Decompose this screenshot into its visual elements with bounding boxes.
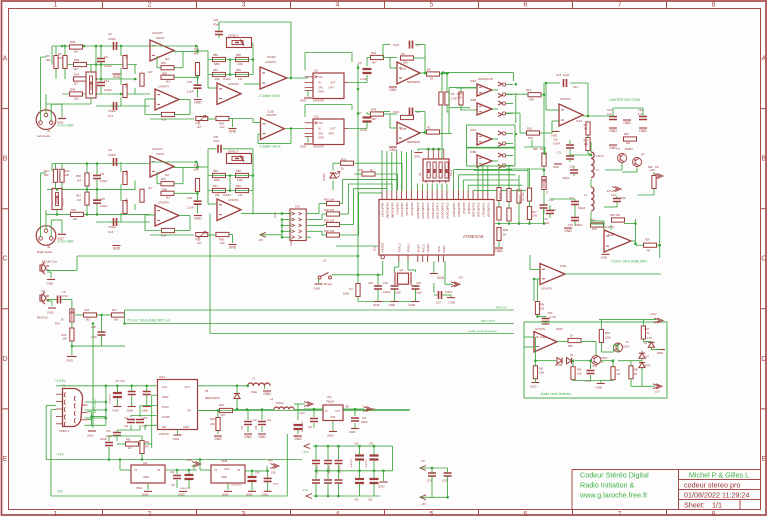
svg-text:S1: S1 [418,172,422,176]
svg-text:4k7: 4k7 [145,446,150,449]
svg-text:IC10C: IC10C [223,77,231,81]
svg-text:10K: 10K [58,56,63,60]
svg-text:(T0)PD4: (T0)PD4 [467,202,471,214]
svg-text:R19: R19 [526,88,532,92]
svg-text:GND: GND [409,303,417,307]
svg-text:1uF: 1uF [171,484,176,487]
svg-text:GND: GND [127,409,133,413]
svg-text:OUT: OUT [335,410,341,413]
svg-text:10: 10 [430,77,434,81]
svg-text:(INT0)PD2: (INT0)PD2 [477,202,481,217]
svg-text:GND: GND [57,236,63,240]
svg-text:6: 6 [524,511,528,517]
svg-text:R59: R59 [213,169,218,173]
svg-text:R31: R31 [85,308,90,312]
svg-text:GND: GND [327,434,333,438]
svg-text:D: D [761,356,766,363]
svg-text:-12V: -12V [299,411,305,415]
svg-text:100pF: 100pF [100,179,108,183]
svg-text:GND: GND [330,416,336,419]
svg-text:330uF/25V: 330uF/25V [180,488,191,490]
svg-text:12k: 12k [238,193,243,197]
svg-text:10uF/25V: 10uF/25V [366,459,368,468]
svg-text:IC8B: IC8B [470,98,476,102]
svg-text:R35: R35 [196,122,201,126]
svg-text:J1: J1 [47,129,51,133]
svg-text:GND: GND [657,351,663,355]
svg-text:-2.3dBm 1KHz: -2.3dBm 1KHz [258,94,280,98]
svg-text:GND: GND [349,430,355,434]
svg-text:+12V: +12V [650,312,657,316]
svg-text:C49: C49 [170,471,175,474]
svg-text:MAX297: MAX297 [314,145,325,149]
svg-text:(ADC2)PC2: (ADC2)PC2 [431,202,435,219]
svg-text:MBRA160T3: MBRA160T3 [205,396,220,400]
svg-text:3300CK: 3300CK [97,84,99,92]
svg-text:100uH: 100uH [276,401,284,405]
svg-text:X3 19K Out: X3 19K Out [42,260,58,264]
svg-text:130k: 130k [539,372,545,375]
svg-text:C9: C9 [62,290,66,294]
svg-text:V0: V0 [237,468,241,472]
svg-text:L5970D: L5970D [159,432,169,436]
svg-text:1uF: 1uF [607,112,612,116]
svg-text:OP1: OP1 [318,132,324,136]
svg-text:GND: GND [229,246,237,250]
svg-text:IC10A: IC10A [156,152,164,156]
svg-text:1k0: 1k0 [220,125,225,129]
svg-text:OUT: OUT [185,385,191,389]
svg-text:2: 2 [148,511,152,517]
svg-text:XTAL2: XTAL2 [397,243,401,253]
svg-text:680: 680 [46,58,51,62]
svg-text:IC11: IC11 [159,375,165,379]
svg-text:26K, R35: 26K, R35 [523,191,525,201]
svg-text:47nF: 47nF [142,417,148,420]
svg-text:R7: R7 [350,287,354,291]
svg-text:680k: 680k [214,178,220,182]
svg-text:SUB-D 9: SUB-D 9 [59,429,70,433]
svg-text:2: 2 [148,2,152,9]
svg-text:GND: GND [112,409,118,413]
svg-text:LF347N: LF347N [228,82,238,86]
svg-text:10uF/25V: 10uF/25V [317,465,319,474]
svg-text:XTAL1: XTAL1 [407,243,411,253]
svg-text:www.g.laroche.free.fr: www.g.laroche.free.fr [579,491,648,500]
svg-text:C28: C28 [91,325,96,329]
svg-text:BC847: BC847 [600,357,608,360]
svg-text:R37: R37 [532,212,537,214]
svg-text:7: 7 [618,2,622,9]
svg-text:GND: GND [194,217,202,221]
svg-text:R56: R56 [236,68,241,72]
svg-text:4k7: 4k7 [372,117,377,121]
svg-text:(ADC5)PC5: (ADC5)PC5 [416,202,420,219]
svg-text:GND: GND [87,434,93,438]
svg-text:RESET: RESET [381,242,385,252]
svg-text:R41 100: R41 100 [324,197,335,201]
svg-text:R4: R4 [401,52,405,56]
svg-text:GND: GND [556,327,562,331]
svg-text:GND: GND [609,129,617,133]
svg-text:1k0: 1k0 [220,241,225,245]
svg-text:R5: R5 [427,68,431,72]
svg-text:4k7: 4k7 [197,241,202,245]
svg-text:2k7: 2k7 [77,198,82,202]
svg-text:12k: 12k [238,77,243,81]
svg-text:IC4B: IC4B [608,233,614,237]
svg-text:R13: R13 [65,169,70,173]
svg-text:3.9mH: 3.9mH [596,154,604,158]
svg-text:470pF: 470pF [108,225,116,229]
svg-text:+5V: +5V [458,276,463,280]
svg-text:C3: C3 [108,32,112,36]
svg-text:GND: GND [530,385,536,389]
svg-text:IC8D: IC8D [470,150,476,154]
svg-text:C1: C1 [416,43,420,47]
svg-text:GND: GND [221,475,227,479]
svg-text:C36: C36 [368,281,373,285]
svg-text:C33: C33 [607,108,612,112]
svg-text:IC12: IC12 [224,467,230,471]
svg-text:S975LS: S975LS [228,150,238,154]
svg-text:C21: C21 [557,151,562,155]
svg-text:-8V: -8V [345,405,349,409]
svg-text:R1: R1 [451,92,455,96]
svg-text:5.6K: 5.6K [532,216,537,218]
svg-text:01/08/2022 11:29:24: 01/08/2022 11:29:24 [684,490,749,499]
svg-text:MAX297: MAX297 [314,99,325,103]
svg-text:24K: 24K [210,422,215,426]
svg-text:R51: R51 [161,61,166,65]
svg-text:Audio Level Detector: Audio Level Detector [541,392,573,396]
svg-text:2k0: 2k0 [74,97,79,101]
svg-text:4.7nF: 4.7nF [550,315,557,319]
svg-text:10K R17: 10K R17 [500,190,502,200]
svg-text:R47: R47 [74,73,80,77]
svg-text:LF347N: LF347N [228,198,238,202]
svg-text:15K: 15K [528,136,533,140]
svg-text:Q2: Q2 [641,152,645,156]
svg-text:GND: GND [57,121,63,125]
svg-text:LIMITER SECTION: LIMITER SECTION [609,98,641,102]
svg-text:(SS)PB2: (SS)PB2 [395,202,399,214]
svg-text:(AIN0)PB6: (AIN0)PB6 [457,202,461,217]
svg-text:GND: GND [564,229,572,233]
svg-text:Radio Initiation &: Radio Initiation & [580,481,635,490]
svg-text:R67: R67 [645,327,650,331]
svg-text:1/1: 1/1 [712,500,722,509]
svg-text:GND: GND [378,485,384,489]
svg-text:GND: GND [623,121,631,125]
svg-text:LF347N: LF347N [152,31,163,35]
svg-text:GND: GND [553,165,559,169]
svg-text:100nF: 100nF [383,290,391,294]
svg-text:15pF: 15pF [620,196,626,200]
svg-text:R51: R51 [161,177,166,181]
svg-text:GND: GND [601,256,607,260]
svg-text:R59: R59 [213,53,218,57]
svg-text:540: 540 [403,61,408,65]
svg-text:C43: C43 [106,430,111,433]
svg-text:R58: R58 [236,53,241,57]
svg-text:3: 3 [242,511,246,517]
svg-text:1K: 1K [370,168,374,172]
svg-text:R35 10K: R35 10K [610,213,620,217]
svg-text:100nF: 100nF [445,290,453,294]
svg-text:GND: GND [183,425,189,429]
svg-text:C16: C16 [187,196,192,200]
svg-text:OP0: OP0 [329,132,335,136]
svg-text:3K3: 3K3 [584,129,589,131]
svg-text:X2: X2 [41,289,45,293]
svg-text:-12V: -12V [654,390,660,394]
svg-text:220pF: 220pF [100,438,107,441]
svg-text:220k: 220k [605,336,611,340]
svg-text:V0: V0 [157,468,161,472]
svg-text:GND: GND [47,311,55,315]
svg-text:1K8: 1K8 [592,227,597,231]
svg-text:A: A [3,56,8,63]
svg-text:4k7: 4k7 [166,80,171,84]
svg-text:R54: R54 [161,118,167,122]
svg-text:GND: GND [389,148,397,152]
svg-text:IC8C: IC8C [470,128,476,132]
svg-text:C19: C19 [549,199,554,202]
svg-text:C41: C41 [124,417,129,420]
svg-text:COMP: COMP [162,415,170,419]
svg-text:GND: GND [300,99,306,103]
svg-text:24K: 24K [529,98,534,102]
svg-text:4k7: 4k7 [148,70,153,74]
svg-text:220nF: 220nF [361,421,368,424]
svg-text:IC4A: IC4A [576,119,582,123]
svg-text:+13.6V: +13.6V [55,379,66,383]
svg-text:C28: C28 [213,18,219,22]
svg-text:R34: R34 [503,228,509,232]
svg-text:R57: R57 [213,184,218,188]
svg-text:(ICP)PB0: (ICP)PB0 [410,202,414,215]
svg-text:100nF: 100nF [273,484,280,486]
svg-text:10E: 10E [584,144,589,146]
svg-text:1: 1 [54,511,58,517]
svg-text:R12: R12 [44,169,49,173]
svg-text:HE10: HE10 [289,238,293,245]
svg-text:V1: V1 [214,468,218,472]
svg-text:GND: GND [229,130,237,134]
svg-text:GND: GND [262,492,268,496]
svg-text:1K: 1K [546,191,549,194]
svg-text:codeur stereo pro: codeur stereo pro [684,480,740,489]
svg-text:8: 8 [712,2,716,9]
svg-text:SYNC: SYNC [162,405,169,409]
svg-text:R21: R21 [584,125,589,127]
svg-text:+5V: +5V [421,502,426,506]
svg-text:IN: IN [325,410,328,413]
svg-text:LF347N: LF347N [158,85,169,89]
svg-text:(INT1)PD3: (INT1)PD3 [472,202,476,217]
svg-text:C23: C23 [568,223,573,227]
svg-text:R64: R64 [540,303,545,307]
svg-text:+8V: +8V [268,459,273,463]
svg-text:C46: C46 [255,425,258,430]
svg-text:(ADC0)PC0: (ADC0)PC0 [441,202,445,219]
svg-text:(SCK)PB5: (SCK)PB5 [381,202,385,217]
svg-text:IN: IN [318,81,321,85]
svg-text:(T1)PD5: (T1)PD5 [462,202,466,214]
svg-text:9k5: 9k5 [114,318,119,322]
svg-text:R39 100: R39 100 [324,218,335,222]
svg-text:13pF: 13pF [91,335,97,339]
svg-text:GND: GND [314,287,322,291]
svg-text:AVCC: AVCC [421,243,425,252]
svg-text:470pF: 470pF [108,37,116,41]
svg-text:33uH: 33uH [251,390,257,394]
svg-text:10K: 10K [65,173,70,177]
svg-text:LF347N: LF347N [604,225,614,229]
svg-text:R61: R61 [539,368,544,371]
svg-text:1: 1 [54,2,58,9]
svg-text:R58: R58 [236,169,241,173]
svg-text:(ICP)PB0: (ICP)PB0 [405,202,409,215]
svg-text:BAS70: BAS70 [643,365,651,368]
svg-text:BC807: BC807 [625,147,633,151]
svg-text:NE5532N: NE5532N [407,140,420,144]
svg-text:1uF: 1uF [638,112,643,116]
svg-text:710mV 1KHz (0dB) MPX: 710mV 1KHz (0dB) MPX [611,260,648,264]
svg-text:S2: S2 [323,259,327,263]
svg-text:+12V: +12V [56,453,65,457]
svg-text:AREF: AREF [416,244,420,252]
svg-text:C5: C5 [358,61,362,65]
svg-text:DS-4: DS-4 [449,170,453,176]
svg-text:2.2uF: 2.2uF [543,221,550,225]
svg-text:C47: C47 [362,417,367,420]
svg-text:CLK: CLK [318,121,323,125]
svg-text:GND: GND [318,90,324,94]
svg-text:2k7: 2k7 [74,82,79,86]
svg-text:100uF/16V: 100uF/16V [231,485,242,487]
svg-text:INH: INH [162,425,167,429]
svg-text:R33: R33 [341,158,347,162]
svg-text:4: 4 [336,2,340,9]
svg-text:C44: C44 [241,425,244,430]
svg-text:OUT: OUT [330,81,336,85]
svg-text:3k3: 3k3 [86,318,91,322]
svg-text:100pF: 100pF [104,64,112,68]
svg-text:R45: R45 [70,40,76,44]
svg-text:IC4: IC4 [327,395,332,399]
svg-text:R62: R62 [126,439,131,442]
svg-text:C53: C53 [548,311,553,315]
svg-text:R43: R43 [371,108,377,112]
svg-text:R29: R29 [62,333,67,337]
svg-text:SK1: SK1 [573,85,578,89]
svg-text:10uF/25V: 10uF/25V [351,459,353,468]
svg-text:R49: R49 [125,54,129,59]
svg-text:B: B [3,156,8,163]
svg-text:GND: GND [258,435,266,439]
svg-text:LF347N: LF347N [158,201,169,205]
svg-text:1M2: 1M2 [577,373,582,376]
svg-text:79L08: 79L08 [326,400,334,404]
svg-text:R2: R2 [427,126,431,130]
svg-text:330pF: 330pF [575,223,583,227]
svg-text:R23: R23 [584,141,589,143]
svg-text:R92: R92 [145,441,150,444]
svg-text:C15: C15 [556,73,562,77]
svg-text:R9: R9 [58,52,62,56]
svg-text:GND: GND [113,75,121,79]
svg-text:IC8A: IC8A [470,79,476,83]
svg-text:S975LS: S975LS [228,34,238,38]
svg-text:VREF: VREF [162,395,169,399]
svg-text:R6: R6 [46,54,50,58]
svg-text:R65: R65 [605,331,610,335]
svg-text:47pF: 47pF [213,139,220,143]
svg-text:R10: R10 [55,322,60,326]
svg-text:GND: GND [273,212,277,218]
svg-text:Right Audio: Right Audio [37,250,53,254]
svg-text:OP1: OP1 [318,86,324,90]
svg-text:-12V: -12V [302,488,308,492]
svg-text:GND: GND [47,282,55,286]
svg-text:GND: GND [495,249,503,253]
svg-text:GND: GND [596,386,602,390]
svg-text:IC9C: IC9C [560,264,567,268]
svg-text:ATMEGA8: ATMEGA8 [463,234,484,239]
svg-text:VCC: VCC [437,245,441,252]
svg-text:GND: GND [246,492,252,496]
svg-text:2K7: 2K7 [221,413,226,417]
svg-text:C12: C12 [104,79,110,83]
svg-text:390: 390 [63,337,68,341]
svg-text:LF347N: LF347N [541,287,552,291]
svg-text:Codeur Stéréo Digital: Codeur Stéréo Digital [580,471,649,480]
svg-text:680: 680 [44,173,49,177]
svg-text:(ADC0)PC0: (ADC0)PC0 [446,202,450,219]
svg-text:R56: R56 [236,184,241,188]
svg-text:IC7A: IC7A [400,67,406,71]
svg-text:R40 100: R40 100 [324,229,335,233]
svg-text:100K R13: 100K R13 [510,190,512,201]
svg-text:LF347N: LF347N [265,60,276,64]
svg-text:100pF: 100pF [100,204,108,208]
svg-text:2k7: 2k7 [74,50,79,54]
svg-text:IC10C: IC10C [223,193,231,197]
svg-text:GND: GND [173,437,179,441]
svg-text:3: 3 [242,2,246,9]
svg-text:GND: GND [178,492,184,496]
svg-text:130k: 130k [237,178,243,182]
svg-text:GND: GND [318,136,324,140]
svg-text:R63: R63 [71,208,76,212]
svg-text:4k7: 4k7 [128,447,133,450]
svg-text:R20: R20 [533,147,538,151]
svg-text:LF347N: LF347N [535,327,545,331]
svg-text:R55: R55 [162,187,167,191]
svg-text:22pF: 22pF [395,291,401,295]
svg-text:C42: C42 [124,425,129,428]
svg-text:C52: C52 [368,499,373,502]
svg-text:VCC: VCC [162,385,168,389]
svg-text:150pF: 150pF [562,176,570,180]
svg-text:GND: GND [142,492,148,496]
svg-text:C25: C25 [100,197,105,201]
svg-text:GND: GND [142,409,148,413]
svg-text:R29: R29 [648,166,653,169]
svg-text:(OC1)PB1: (OC1)PB1 [400,202,404,217]
